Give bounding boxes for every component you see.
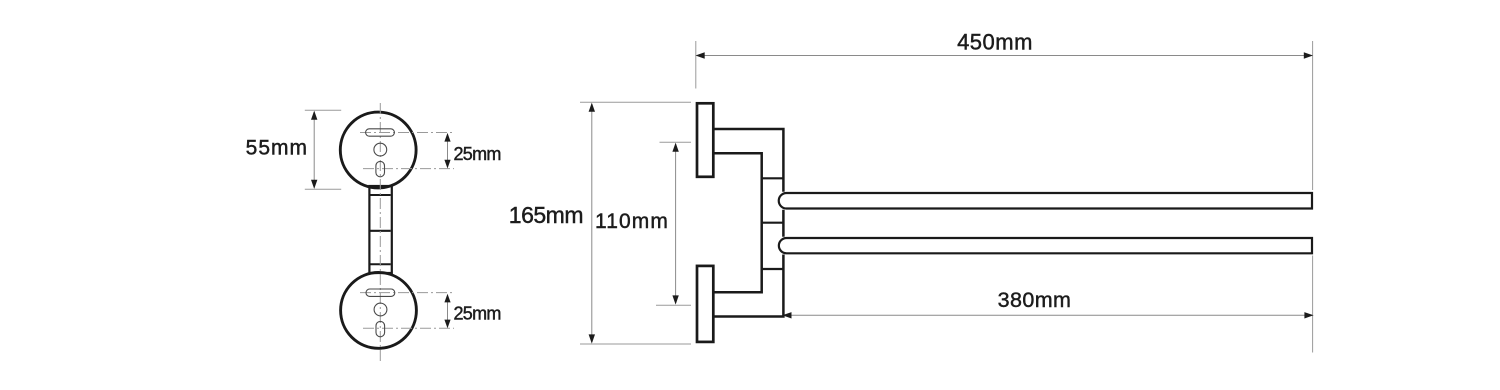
svg-text:25mm: 25mm [454,303,501,323]
svg-text:165mm: 165mm [509,202,583,228]
svg-text:450mm: 450mm [957,30,1033,55]
svg-text:25mm: 25mm [454,144,501,164]
svg-text:380mm: 380mm [998,288,1072,312]
svg-text:110mm: 110mm [595,210,669,233]
svg-text:55mm: 55mm [246,136,308,159]
